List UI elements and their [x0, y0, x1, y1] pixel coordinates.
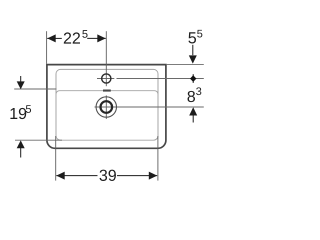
reference line rim front extended left	[15, 139, 62, 141]
dimension line 39	[56, 175, 97, 177]
drain outer circle	[96, 97, 116, 117]
arrow 22.5 left	[47, 34, 55, 42]
reference line basin top extended right	[166, 64, 204, 66]
drain vertical centerline	[105, 95, 107, 119]
bowl back edge	[56, 91, 158, 95]
label 5.5	[188, 30, 202, 44]
extension line 22.5 left	[46, 31, 48, 64]
arrow 39 right	[149, 172, 157, 180]
arrow 5.5 stem	[192, 45, 194, 55]
arrow 19.5 up	[17, 140, 25, 148]
arrow 19.5 down	[17, 81, 25, 89]
washbasin outer edge	[47, 65, 166, 149]
dimension line 22.5	[47, 37, 62, 39]
reference line bowl back edge extended left	[14, 88, 56, 90]
extension line 39 left	[55, 136, 57, 181]
label 8.3	[188, 87, 202, 102]
overflow slot	[103, 90, 111, 92]
arrow 8.3 up	[189, 107, 197, 115]
label 22.5	[64, 30, 88, 43]
extension line 39 right	[157, 136, 159, 181]
drain inner circle	[101, 101, 113, 113]
arrow 22.5 right	[97, 34, 105, 42]
tap hole	[102, 74, 111, 83]
reference line drain centerline right	[95, 106, 204, 108]
reference line tap centerline right	[97, 78, 114, 80]
arrow 19.5 bottom stem	[20, 148, 22, 158]
arrow 19.5 top stem	[20, 76, 22, 82]
arrow 39 left	[56, 172, 64, 180]
basin rim inner edge	[56, 69, 158, 140]
label 39	[100, 170, 116, 181]
arrow 8.3 stem	[192, 115, 194, 122]
shared arrow diamond at tap line	[190, 75, 196, 82]
label 19.5	[10, 105, 31, 119]
extension line 22.5 right / tap centerline	[105, 31, 107, 86]
arrow 5.5 down	[189, 55, 197, 63]
